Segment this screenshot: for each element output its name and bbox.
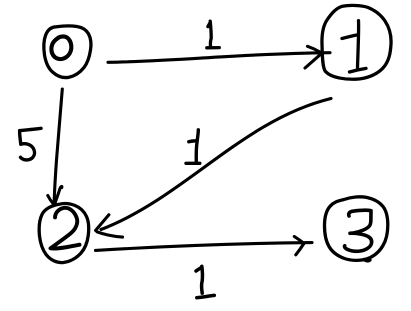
node 0 digit 0 <box>51 36 71 59</box>
label 1 (edge 2-3) <box>196 266 214 297</box>
edge 2-3 arrowhead <box>294 237 304 255</box>
node 2 digit 2 <box>51 208 80 249</box>
node 1 digit 1 <box>342 21 366 72</box>
edge 0-1 arrowhead <box>305 46 321 68</box>
edge 0-2 wire <box>54 89 62 204</box>
node 3 outline <box>325 197 388 261</box>
node 0 outline <box>44 26 91 78</box>
label 1 (edge 0-1) <box>207 21 220 48</box>
label 1 (edge 1-2) <box>186 130 200 164</box>
edge 0-2 arrowhead <box>48 186 62 204</box>
edge 1-2 wire <box>101 99 331 230</box>
edge 1-2 arrowhead <box>96 215 123 237</box>
edge 2-3 wire <box>96 243 313 251</box>
node 1 outline <box>322 5 391 79</box>
edge 0-1 wire <box>108 53 330 63</box>
label 5 (edge 0-2) <box>20 128 41 160</box>
node 2 outline <box>39 204 88 263</box>
node 3 digit 3 <box>344 210 371 251</box>
